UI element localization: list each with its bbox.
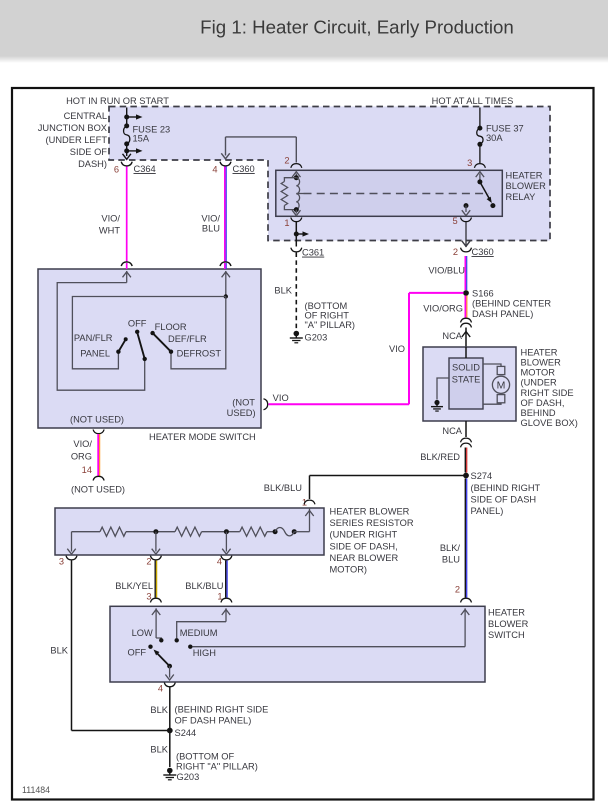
svg-text:VIO/BLU: VIO/BLU [428, 266, 465, 276]
svg-text:OF RIGHT: OF RIGHT [305, 310, 350, 320]
svg-text:OF DASH PANEL): OF DASH PANEL) [175, 715, 252, 725]
svg-text:BLK/BLU: BLK/BLU [185, 581, 223, 591]
svg-text:OFF: OFF [128, 318, 147, 328]
svg-text:S166: S166 [472, 289, 494, 299]
svg-text:BLU: BLU [202, 223, 220, 233]
svg-text:BLK: BLK [150, 744, 168, 754]
svg-text:USED): USED) [227, 408, 256, 418]
svg-text:PANEL): PANEL) [471, 506, 504, 516]
svg-text:BEHIND: BEHIND [521, 408, 556, 418]
svg-text:4: 4 [158, 683, 163, 693]
svg-text:4: 4 [212, 165, 217, 175]
svg-text:BLOWER: BLOWER [521, 358, 562, 368]
svg-text:G203: G203 [305, 332, 328, 342]
svg-text:WHT: WHT [99, 225, 120, 235]
svg-text:PANEL: PANEL [80, 348, 110, 358]
svg-text:NCA: NCA [442, 331, 462, 341]
svg-text:BLOWER: BLOWER [506, 181, 547, 191]
svg-text:BLK/RED: BLK/RED [420, 452, 460, 462]
svg-text:BLK: BLK [274, 286, 292, 296]
svg-text:14: 14 [82, 465, 92, 475]
svg-text:30A: 30A [486, 133, 503, 143]
svg-text:2: 2 [146, 557, 151, 567]
svg-text:2: 2 [455, 585, 460, 595]
svg-text:5: 5 [453, 216, 458, 226]
svg-text:BLOWER: BLOWER [488, 619, 529, 629]
svg-text:SIDE OF: SIDE OF [70, 147, 108, 157]
svg-text:111484: 111484 [22, 785, 50, 795]
svg-text:HIGH: HIGH [193, 648, 216, 658]
svg-text:STATE: STATE [452, 375, 481, 385]
svg-text:2: 2 [284, 156, 289, 166]
svg-text:SIDE OF DASH,: SIDE OF DASH, [330, 541, 398, 551]
svg-text:S244: S244 [175, 728, 197, 738]
svg-text:RIGHT "A" PILLAR): RIGHT "A" PILLAR) [176, 762, 258, 772]
svg-text:BLU: BLU [442, 555, 460, 565]
svg-text:VIO/ORG: VIO/ORG [423, 304, 463, 314]
svg-text:HEATER: HEATER [506, 171, 543, 181]
svg-text:6: 6 [114, 165, 119, 175]
svg-text:VIO: VIO [389, 344, 405, 354]
svg-text:(UNDER: (UNDER [521, 378, 557, 388]
svg-text:1: 1 [284, 218, 289, 228]
svg-text:BLK/BLU: BLK/BLU [264, 483, 302, 493]
svg-text:VIO/: VIO/ [73, 439, 92, 449]
svg-text:(NOT: (NOT [232, 397, 255, 407]
svg-text:M: M [497, 380, 506, 392]
svg-text:MEDIUM: MEDIUM [180, 628, 218, 638]
svg-text:FLOOR: FLOOR [155, 322, 187, 332]
svg-text:DASH): DASH) [78, 159, 107, 169]
svg-text:3: 3 [59, 557, 64, 567]
svg-text:BLK/YEL: BLK/YEL [115, 581, 153, 591]
svg-text:(NOT USED): (NOT USED) [71, 485, 125, 495]
svg-text:3: 3 [146, 592, 151, 602]
svg-text:SIDE OF DASH: SIDE OF DASH [471, 495, 537, 505]
svg-text:2: 2 [453, 247, 458, 257]
svg-text:G203: G203 [177, 772, 200, 782]
svg-text:(BEHIND RIGHT: (BEHIND RIGHT [471, 483, 541, 493]
svg-text:LOW: LOW [132, 628, 153, 638]
svg-text:(NOT USED): (NOT USED) [70, 414, 124, 424]
svg-text:DEF/FLR: DEF/FLR [168, 334, 207, 344]
svg-text:VIO: VIO [273, 393, 289, 403]
svg-text:(BOTTOM: (BOTTOM [305, 301, 348, 311]
svg-text:HEATER: HEATER [488, 608, 525, 618]
svg-text:OFF: OFF [128, 648, 147, 658]
svg-text:RELAY: RELAY [506, 192, 536, 202]
svg-text:HEATER MODE SWITCH: HEATER MODE SWITCH [149, 432, 256, 442]
svg-text:DEFROST: DEFROST [177, 348, 222, 358]
svg-text:BLK/: BLK/ [440, 543, 461, 553]
svg-text:VIO/: VIO/ [101, 213, 120, 223]
svg-text:MOTOR): MOTOR) [330, 565, 368, 575]
svg-text:C364: C364 [134, 164, 156, 174]
svg-text:C361: C361 [302, 248, 324, 258]
svg-text:Fig 1: Heater Circuit, Early P: Fig 1: Heater Circuit, Early Production [200, 17, 514, 38]
svg-text:HOT IN RUN OR START: HOT IN RUN OR START [66, 96, 169, 106]
svg-text:(UNDER RIGHT: (UNDER RIGHT [330, 530, 398, 540]
svg-text:15A: 15A [133, 134, 150, 144]
svg-text:NEAR BLOWER: NEAR BLOWER [330, 553, 399, 563]
svg-text:CENTRAL: CENTRAL [64, 111, 107, 121]
svg-text:ORG: ORG [71, 452, 92, 462]
svg-text:HEATER: HEATER [521, 347, 558, 357]
svg-text:JUNCTION BOX: JUNCTION BOX [38, 123, 107, 133]
svg-text:OF DASH,: OF DASH, [521, 398, 565, 408]
svg-text:C360: C360 [472, 247, 494, 257]
svg-text:(UNDER LEFT: (UNDER LEFT [46, 135, 108, 145]
svg-text:SERIES RESISTOR: SERIES RESISTOR [330, 518, 414, 528]
svg-text:(BEHIND CENTER: (BEHIND CENTER [472, 299, 551, 309]
svg-text:BLK: BLK [50, 646, 68, 656]
svg-text:(BEHIND RIGHT SIDE: (BEHIND RIGHT SIDE [175, 704, 269, 714]
svg-text:SWITCH: SWITCH [488, 630, 525, 640]
svg-text:VIO/: VIO/ [201, 213, 220, 223]
svg-text:HOT AT ALL TIMES: HOT AT ALL TIMES [432, 96, 514, 106]
svg-text:S274: S274 [471, 471, 493, 481]
svg-text:PAN/FLR: PAN/FLR [74, 333, 113, 343]
svg-text:(BOTTOM OF: (BOTTOM OF [176, 752, 235, 762]
svg-text:DASH PANEL): DASH PANEL) [472, 309, 533, 319]
svg-text:HEATER BLOWER: HEATER BLOWER [330, 507, 410, 517]
svg-text:SOLID: SOLID [452, 363, 480, 373]
svg-text:RIGHT SIDE: RIGHT SIDE [521, 388, 574, 398]
svg-text:C360: C360 [233, 164, 255, 174]
svg-text:4: 4 [217, 557, 222, 567]
svg-text:MOTOR: MOTOR [521, 368, 556, 378]
svg-text:"A" PILLAR): "A" PILLAR) [305, 320, 356, 330]
svg-text:3: 3 [467, 158, 472, 168]
svg-text:BLK: BLK [150, 705, 168, 715]
svg-text:NCA: NCA [442, 426, 462, 436]
svg-text:GLOVE BOX): GLOVE BOX) [521, 418, 578, 428]
